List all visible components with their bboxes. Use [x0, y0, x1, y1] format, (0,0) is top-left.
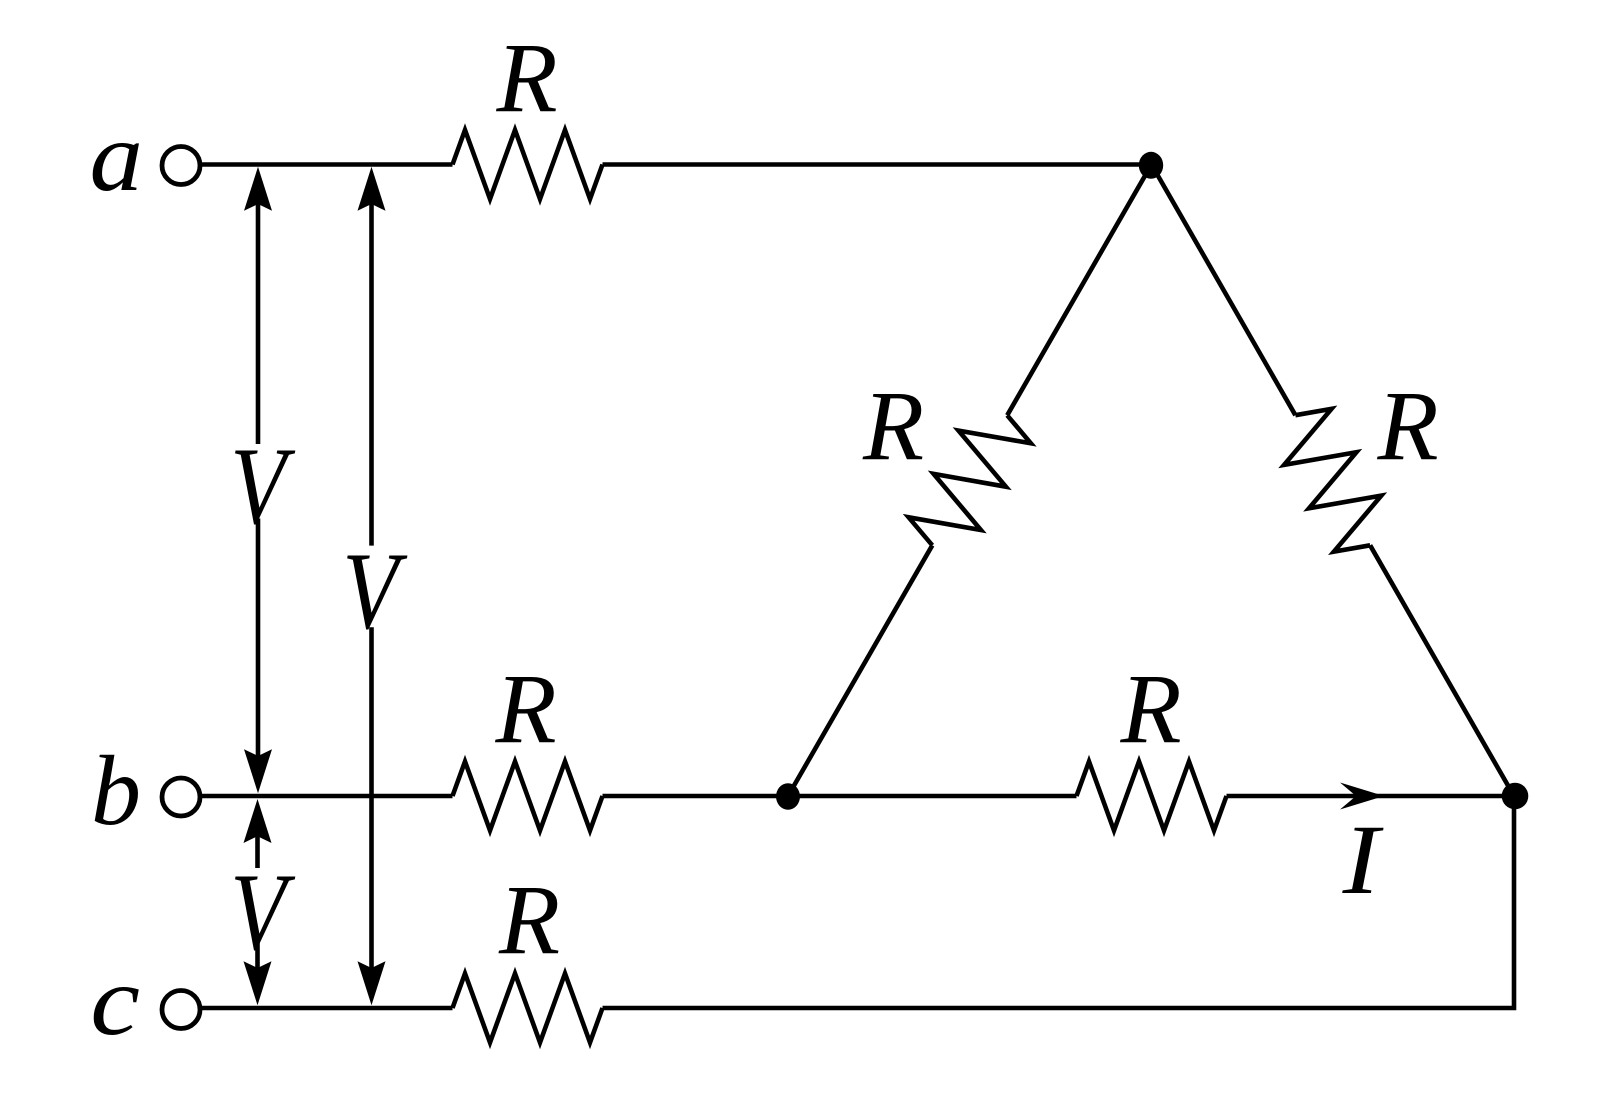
wire resistor R5 to bottom-right node [1227, 794, 1515, 799]
svg-text:R: R [495, 22, 557, 133]
voltage arrow V2 shaft (a to c) upper [369, 200, 374, 546]
svg-text:V: V [230, 851, 295, 972]
arrowhead V3 down (at c wire) [244, 961, 272, 1005]
wire resistor R3 to bottom-right corner and up to bottom-right node [603, 796, 1515, 1008]
svg-text:V: V [230, 425, 295, 546]
svg-text:a: a [89, 102, 143, 212]
node B (bottom-left delta node) [776, 783, 800, 809]
arrowhead V2 down (at c wire) [358, 961, 386, 1005]
wire resistor R1 to top node [603, 162, 1152, 167]
svg-text:V: V [342, 530, 407, 651]
voltage arrow V3 shaft (b to c) upper [255, 834, 260, 868]
resistor R5 (delta bottom leg) [1077, 762, 1227, 831]
wire bottom-left node to resistor R5 [788, 794, 1077, 799]
terminal c circle [162, 991, 200, 1029]
voltage arrow V2 shaft (a to c) lower [369, 627, 374, 970]
wire delta right leg lower segment [1370, 545, 1514, 796]
terminal a circle [162, 147, 200, 185]
voltage arrow V1 shaft (a to b) upper [256, 200, 261, 444]
wire delta right leg upper segment [1152, 165, 1296, 416]
svg-text:R: R [494, 653, 556, 764]
svg-text:R: R [1376, 370, 1438, 481]
voltage arrow V3 shaft (b to c) lower [255, 938, 260, 970]
terminal b circle [162, 778, 200, 816]
node C (bottom-right delta node) [1502, 783, 1529, 810]
svg-text:I: I [1342, 804, 1385, 915]
svg-text:R: R [862, 370, 924, 481]
arrowhead V1 down (at b wire) [244, 749, 272, 793]
svg-text:R: R [498, 864, 560, 975]
arrowhead V1 up (at a wire) [244, 167, 272, 211]
wire delta left leg lower segment [788, 545, 932, 796]
svg-text:b: b [91, 735, 141, 846]
wire c terminal to resistor R3 [200, 1006, 453, 1011]
resistor R3 (bottom line) [453, 974, 603, 1043]
svg-text:c: c [90, 945, 140, 1056]
resistor R2 (middle line) [453, 762, 603, 831]
arrowhead V3 up (at b wire) [244, 799, 272, 843]
arrowhead V2 up (at a wire) [358, 167, 386, 211]
wire b terminal to resistor R2 [200, 794, 453, 799]
resistor R6 (delta right leg) [1284, 409, 1381, 552]
voltage arrow V1 shaft (a to b) lower [256, 519, 261, 759]
wire resistor R2 to bottom-left node [603, 794, 789, 799]
arrowhead current I (on delta bottom leg) [1340, 783, 1384, 810]
resistor R4 (delta left leg) [909, 415, 1031, 545]
wire a terminal to resistor R1 [200, 162, 453, 167]
svg-text:R: R [1119, 653, 1181, 764]
wire delta left leg upper segment [1007, 165, 1151, 416]
node A (top delta node) [1139, 152, 1163, 179]
resistor R1 (top line) [453, 130, 603, 199]
